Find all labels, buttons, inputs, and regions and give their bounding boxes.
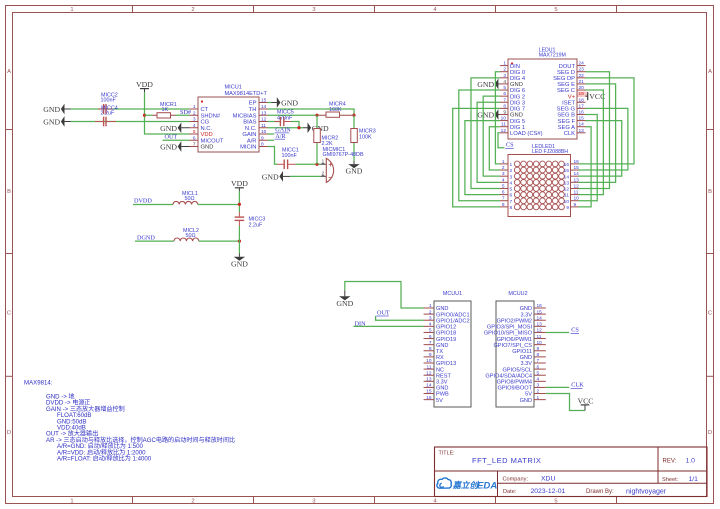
svg-text:12: 12	[564, 187, 570, 193]
svg-text:470nF: 470nF	[277, 115, 293, 121]
notes text MAX9814 description	[24, 380, 235, 463]
wire 5V to VCC	[546, 394, 585, 411]
wire SEG DP to matrix pin 16	[579, 78, 635, 164]
svg-text:DIG 0: DIG 0	[510, 70, 525, 76]
net label OUT (MCU)	[376, 310, 390, 317]
svg-text:MICIN: MICIN	[240, 145, 256, 151]
svg-text:RX: RX	[436, 355, 444, 361]
resistor MICR1 1K	[153, 113, 176, 118]
svg-text:18: 18	[579, 97, 585, 103]
svg-text:2: 2	[193, 110, 196, 116]
svg-text:16: 16	[564, 162, 570, 168]
svg-text:9: 9	[537, 346, 540, 352]
chip LEDU1 MAX7219M body	[508, 59, 577, 139]
svg-text:5: 5	[193, 129, 196, 135]
svg-text:GND: GND	[436, 343, 448, 349]
svg-text:CS: CS	[571, 327, 579, 334]
svg-text:GND: GND	[160, 124, 177, 133]
power flag VCC (MCU)	[577, 396, 593, 410]
svg-text:FFT_LED MATRIX: FFT_LED MATRIX	[472, 456, 541, 465]
svg-text:GPIO4/SDA/ADC4: GPIO4/SDA/ADC4	[485, 373, 532, 379]
net label GAIN	[275, 127, 292, 134]
inductor MICL2 50R	[174, 238, 199, 241]
svg-text:GND: GND	[477, 80, 494, 89]
svg-text:5V: 5V	[436, 398, 443, 404]
wire A/R net	[268, 139, 275, 141]
junction N.C./BIAS	[297, 126, 300, 129]
svg-text:PWB: PWB	[436, 392, 449, 398]
svg-text:6: 6	[429, 334, 432, 340]
svg-text:GND: GND	[346, 167, 363, 176]
wire MICR1 to SHDN#	[176, 114, 190, 116]
svg-text:VDD: VDD	[231, 179, 248, 188]
svg-text:11: 11	[574, 190, 579, 196]
wire SEG D to matrix pin 12	[579, 72, 610, 189]
net label A/R	[275, 133, 287, 140]
MICU1 right pins 8-15	[233, 98, 268, 151]
svg-text:SEG B: SEG B	[557, 113, 575, 119]
svg-text:5: 5	[537, 370, 540, 376]
MCUU2 reference label	[508, 291, 527, 297]
svg-text:16: 16	[574, 159, 580, 165]
svg-text:2: 2	[322, 171, 325, 176]
svg-text:GND: GND	[201, 145, 214, 151]
svg-text:SEG D: SEG D	[557, 70, 575, 76]
svg-text:23: 23	[579, 67, 585, 73]
svg-text:14: 14	[564, 174, 570, 180]
wire BIAS to NC junction	[291, 122, 299, 128]
ground flag GND (N.C. pin4)	[160, 122, 189, 133]
LEDLED1 reference label	[532, 144, 555, 150]
svg-text:20: 20	[579, 85, 585, 91]
MICC1 labels	[282, 148, 299, 159]
LEDLED1 dot grid	[514, 161, 564, 210]
svg-text:GND: GND	[281, 99, 298, 108]
svg-text:SEG E: SEG E	[557, 82, 575, 88]
svg-text:DOUT: DOUT	[559, 64, 576, 70]
svg-text:GPIO2/PWM2: GPIO2/PWM2	[497, 318, 532, 324]
svg-text:100nF: 100nF	[282, 153, 298, 159]
svg-text:3.3V: 3.3V	[520, 361, 532, 367]
ground flag GND (filter)	[231, 254, 248, 269]
svg-text:4: 4	[193, 123, 196, 129]
wire SEG E to matrix pin 13	[579, 84, 616, 182]
svg-text:10: 10	[426, 358, 432, 364]
svg-text:GND: GND	[43, 105, 60, 114]
svg-text:11: 11	[261, 123, 266, 129]
svg-text:2023-12-01: 2023-12-01	[531, 488, 566, 495]
svg-text:GPIO7/SPI_CS: GPIO7/SPI_CS	[493, 343, 532, 349]
capacitor MICC5	[268, 117, 292, 126]
svg-text:MAX9814:: MAX9814:	[24, 380, 53, 387]
wire DIG 7 to matrix pin 8	[453, 108, 500, 207]
ground flag GND (LEDU1 pin9)	[477, 109, 500, 120]
svg-text:NC: NC	[436, 367, 444, 373]
svg-text:REST: REST	[436, 373, 452, 379]
svg-text:160K: 160K	[329, 107, 342, 113]
svg-text:10: 10	[564, 199, 570, 205]
svg-text:BIAS: BIAS	[243, 120, 256, 126]
junction VDD/MICC3 top	[238, 203, 241, 206]
MICR4 labels	[329, 101, 346, 113]
svg-text:7: 7	[537, 358, 540, 364]
svg-text:SEG F: SEG F	[558, 119, 576, 125]
svg-text:3: 3	[312, 499, 315, 505]
svg-text:MAX9814ETD+T: MAX9814ETD+T	[225, 91, 268, 97]
svg-text:TITLE:: TITLE:	[439, 451, 455, 457]
resistor MICR3 100K	[351, 115, 358, 161]
svg-text:16: 16	[579, 109, 585, 115]
svg-text:1: 1	[510, 162, 513, 168]
svg-text:1: 1	[70, 499, 73, 505]
svg-text:VCC: VCC	[577, 396, 593, 405]
LEDU1 right pins 13-24	[553, 61, 587, 137]
svg-text:MCUU2: MCUU2	[508, 291, 527, 297]
ground flag GND (CT input)	[43, 104, 70, 115]
svg-text:Company:: Company:	[503, 477, 529, 483]
LEDLED1 right pins 9-16	[564, 159, 580, 211]
svg-text:GPIO9/BOOT: GPIO9/BOOT	[497, 386, 532, 392]
svg-text:24: 24	[579, 61, 585, 67]
svg-text:GPIO13: GPIO13	[436, 361, 456, 367]
svg-text:2: 2	[537, 389, 540, 395]
svg-text:GPIO10/SPI_MISO: GPIO10/SPI_MISO	[484, 331, 533, 337]
svg-text:Date:: Date:	[503, 489, 517, 495]
svg-text:1: 1	[70, 7, 73, 13]
svg-text:5: 5	[503, 85, 506, 91]
svg-text:7: 7	[510, 199, 513, 205]
svg-text:DIG 2: DIG 2	[510, 94, 525, 100]
svg-text:14: 14	[261, 104, 267, 110]
svg-text:EP: EP	[249, 101, 257, 107]
MCUU1 reference label	[443, 291, 462, 297]
svg-text:C: C	[7, 311, 11, 317]
svg-text:50Ω: 50Ω	[185, 196, 195, 202]
wire GPIO10 to CS	[546, 331, 569, 333]
svg-text:7: 7	[502, 196, 505, 202]
svg-text:3: 3	[537, 383, 540, 389]
svg-text:DIG 7: DIG 7	[510, 107, 525, 113]
title block Sheet	[662, 476, 698, 483]
title block TITLE label	[439, 451, 455, 457]
svg-text:ISET: ISET	[562, 100, 575, 106]
svg-text:D: D	[708, 430, 712, 436]
svg-text:9: 9	[261, 135, 264, 141]
svg-text:1K: 1K	[162, 107, 169, 113]
LED matrix LEDLED1 body	[508, 155, 571, 217]
LEDU1 left pins 1-12	[500, 61, 543, 137]
net label DGND	[137, 234, 155, 241]
svg-text:GPIO6/PWM1: GPIO6/PWM1	[497, 337, 532, 343]
svg-text:DIG 3: DIG 3	[510, 100, 525, 106]
svg-text:10: 10	[501, 116, 507, 122]
svg-text:3: 3	[510, 174, 513, 180]
svg-text:7: 7	[503, 97, 506, 103]
svg-text:VDD: VDD	[201, 132, 213, 138]
svg-text:GPIO19: GPIO19	[436, 337, 456, 343]
MCUU1 pins 1-16	[424, 303, 470, 404]
resistor MICR2 2.2K	[314, 115, 321, 164]
wire SEG G to matrix pin 15	[579, 108, 628, 170]
svg-text:8: 8	[502, 202, 505, 208]
svg-text:8: 8	[261, 142, 264, 148]
svg-text:GMI9767P-48DB: GMI9767P-48DB	[323, 152, 364, 158]
wire SEG A to matrix pin 9	[579, 127, 592, 207]
svg-text:XDU: XDU	[541, 476, 555, 483]
svg-text:14: 14	[579, 122, 585, 128]
svg-text:5: 5	[429, 328, 432, 334]
svg-text:MICOUT: MICOUT	[201, 138, 224, 144]
wire DIG 0 to matrix pin 1	[495, 72, 500, 164]
svg-text:GPIO5/SCL: GPIO5/SCL	[502, 367, 532, 373]
svg-text:GND: GND	[520, 355, 532, 361]
wire DIN to GPIO12	[354, 325, 424, 327]
wire N.C. net	[268, 127, 304, 129]
svg-text:12: 12	[501, 128, 507, 134]
svg-text:3: 3	[503, 73, 506, 79]
svg-text:OUT: OUT	[377, 310, 390, 317]
svg-text:OUT: OUT	[165, 133, 178, 140]
LEDU1 reference label	[539, 47, 556, 53]
title block Date row	[503, 488, 667, 495]
svg-text:2.2uF: 2.2uF	[101, 111, 115, 117]
LEDLED1 value label	[532, 149, 568, 155]
svg-text:3: 3	[193, 117, 196, 123]
junction DGND/MICC3 bottom	[238, 240, 241, 243]
wire MICL2 to junction	[199, 240, 240, 242]
svg-text:GND: GND	[336, 299, 353, 308]
svg-text:9: 9	[429, 352, 432, 358]
svg-text:嘉立创: 嘉立创	[452, 480, 480, 490]
wire DIG 2 to matrix pin 3	[483, 96, 500, 176]
wire DIG 5 to matrix pin 6	[465, 121, 500, 195]
svg-text:15: 15	[537, 309, 543, 315]
svg-text:DVDD: DVDD	[134, 198, 152, 205]
svg-text:SEG DP: SEG DP	[553, 76, 575, 82]
MICU1 left pins 1-7	[190, 104, 224, 151]
svg-text:8: 8	[510, 205, 513, 211]
wire MICC1 to mic	[296, 163, 321, 165]
svg-text:15: 15	[426, 389, 432, 395]
svg-text:3.3V: 3.3V	[436, 380, 448, 386]
svg-text:17: 17	[579, 103, 585, 109]
svg-text:2.2uF: 2.2uF	[249, 222, 263, 228]
svg-text:4: 4	[510, 180, 513, 186]
svg-text:3: 3	[502, 171, 505, 177]
title block REV	[663, 458, 696, 465]
svg-text:10: 10	[574, 196, 580, 202]
svg-text:9: 9	[503, 109, 506, 115]
svg-text:A/R: A/R	[247, 138, 257, 144]
svg-text:C: C	[708, 311, 712, 317]
wire VDD to MICR1	[145, 114, 153, 116]
svg-text:EDA: EDA	[477, 480, 497, 491]
LEDLED1 left pins 1-8	[500, 159, 513, 211]
svg-text:A: A	[7, 69, 11, 75]
svg-text:15: 15	[564, 168, 570, 174]
svg-text:50Ω: 50Ω	[186, 233, 196, 239]
net label CLK (MCU)	[571, 382, 585, 389]
capacitor MICC3	[235, 212, 245, 226]
svg-text:16: 16	[426, 395, 432, 401]
connector MCUU2 body	[496, 301, 534, 407]
logo JLC EDA	[437, 478, 497, 491]
MICR2 labels	[322, 136, 339, 148]
net label DVDD	[134, 198, 152, 205]
svg-text:13: 13	[564, 180, 570, 186]
MICC4 labels	[101, 105, 118, 116]
svg-text:12: 12	[537, 328, 543, 334]
svg-text:N.C.: N.C.	[245, 126, 257, 132]
svg-text:GND: GND	[43, 118, 60, 127]
svg-text:GND: GND	[160, 143, 177, 152]
capacitor MICC1	[277, 160, 296, 170]
svg-text:A: A	[708, 69, 712, 75]
svg-text:100nF: 100nF	[101, 98, 117, 104]
svg-text:GND: GND	[520, 398, 532, 404]
svg-text:DGND: DGND	[137, 234, 155, 241]
MICMIC1 labels	[323, 147, 364, 158]
svg-text:14: 14	[537, 315, 543, 321]
svg-text:2: 2	[510, 168, 513, 174]
svg-text:1: 1	[193, 104, 196, 110]
svg-text:GND: GND	[510, 113, 523, 119]
title block Company	[503, 476, 556, 483]
svg-text:7: 7	[429, 340, 432, 346]
svg-text:1.0: 1.0	[686, 458, 696, 465]
svg-text:11: 11	[427, 364, 432, 370]
svg-text:16: 16	[537, 303, 543, 309]
svg-text:11: 11	[564, 193, 569, 199]
svg-text:D: D	[7, 430, 11, 436]
wire MCUU1 pin1 to GND	[345, 282, 424, 309]
svg-text:5: 5	[510, 187, 513, 193]
svg-text:DIG 1: DIG 1	[510, 125, 525, 131]
power flag VCC (V+)	[586, 92, 606, 101]
svg-text:2: 2	[191, 7, 194, 13]
svg-text:MICBIAS: MICBIAS	[233, 113, 257, 119]
svg-text:9: 9	[566, 205, 569, 211]
wire MICL1 to junction	[198, 204, 240, 206]
svg-text:GPIO11: GPIO11	[512, 349, 532, 355]
MCUU2 pins 1-16	[484, 303, 546, 404]
ground flag GND (MCUU1)	[336, 290, 353, 308]
svg-text:CLK: CLK	[564, 131, 575, 137]
svg-text:GPIO0/ADC1: GPIO0/ADC1	[436, 312, 470, 318]
svg-text:CG: CG	[201, 120, 210, 126]
svg-text:14: 14	[574, 171, 580, 177]
svg-text:1: 1	[537, 395, 540, 401]
svg-text:12: 12	[426, 370, 432, 376]
MICU1 reference label	[225, 85, 242, 91]
svg-text:DIG 4: DIG 4	[510, 76, 526, 82]
svg-text:B: B	[7, 189, 11, 195]
wire DGND net	[135, 240, 174, 242]
ground flag GND (N.C./BIAS)	[303, 122, 329, 133]
MICR1 labels	[160, 102, 177, 113]
svg-text:6: 6	[537, 364, 540, 370]
svg-text:10: 10	[537, 340, 543, 346]
svg-text:MAX7219M: MAX7219M	[539, 53, 566, 59]
svg-text:1: 1	[429, 303, 432, 309]
svg-text:6: 6	[193, 135, 196, 141]
svg-text:REV:: REV:	[663, 459, 677, 465]
svg-text:V+: V+	[568, 94, 576, 100]
svg-text:+: +	[328, 160, 333, 169]
svg-text:GND: GND	[520, 306, 532, 312]
op-amp U MICU1 MAX9814 body	[198, 97, 259, 152]
svg-text:A/R: A/R	[275, 133, 286, 140]
svg-text:CS: CS	[506, 142, 514, 149]
svg-text:N.C.: N.C.	[201, 126, 213, 132]
capacitor MICC2	[98, 104, 113, 114]
svg-text:3.3V: 3.3V	[520, 312, 532, 318]
svg-text:TH: TH	[249, 107, 257, 113]
svg-text:19: 19	[579, 91, 585, 97]
wire DIG 6 to matrix pin 7	[459, 90, 500, 201]
wire MICBIAS net	[268, 114, 318, 116]
title block grid	[435, 447, 708, 497]
wire CT net	[71, 108, 190, 110]
svg-text:SEG C: SEG C	[557, 88, 575, 94]
svg-text:GPIO8/PWM4: GPIO8/PWM4	[497, 380, 532, 386]
wire SEG B to matrix pin 10	[579, 114, 598, 200]
svg-text:15: 15	[261, 98, 267, 104]
svg-text:14: 14	[426, 383, 432, 389]
svg-text:GAIN: GAIN	[242, 132, 256, 138]
wire MICC3 to GND	[238, 226, 240, 254]
LEDU1 value label	[539, 53, 566, 59]
svg-text:1: 1	[322, 159, 325, 164]
svg-text:GPIO3/SPI_MOSI: GPIO3/SPI_MOSI	[487, 325, 533, 331]
MICC2 labels	[101, 92, 118, 103]
svg-text:3: 3	[429, 315, 432, 321]
svg-text:2: 2	[429, 309, 432, 315]
svg-text:1/1: 1/1	[689, 476, 699, 483]
svg-text:SD#: SD#	[180, 109, 191, 116]
svg-text:13: 13	[426, 377, 432, 383]
svg-text:5: 5	[502, 183, 505, 189]
svg-text:DIG 5: DIG 5	[510, 119, 525, 125]
svg-text:Drawn By:: Drawn By:	[586, 489, 614, 495]
resistor MICR4 160K	[317, 112, 354, 117]
ground flag GND (CG input)	[43, 116, 70, 127]
connector MCUU1 body	[434, 301, 471, 407]
svg-text:100K: 100K	[359, 134, 372, 140]
wire VDD to cap rail	[238, 191, 240, 212]
svg-text:21: 21	[579, 79, 585, 85]
wire GPIO9 to CLK	[546, 386, 569, 388]
svg-text:8: 8	[503, 103, 506, 109]
ground flag GND (below MICR3)	[346, 161, 363, 176]
net label DIN (MCU)	[355, 320, 367, 327]
ground flag GND (mic minus)	[262, 171, 290, 182]
svg-text:B: B	[708, 189, 712, 195]
svg-text:SEG A: SEG A	[558, 125, 576, 131]
svg-text:4: 4	[502, 177, 505, 183]
net label OUT (MICOUT)	[165, 133, 178, 140]
svg-text:GND: GND	[436, 386, 448, 392]
wire DIG 1 to matrix pin 2	[489, 127, 500, 170]
svg-text:13: 13	[261, 110, 267, 116]
svg-text:nightvoyager: nightvoyager	[626, 489, 667, 496]
MICR3 labels	[359, 129, 376, 141]
wire MICIN net	[268, 147, 278, 165]
svg-text:A/R=FLOAT: 启动/释放比为 1:4000: A/R=FLOAT: 启动/释放比为 1:4000	[57, 455, 152, 463]
wire OUT to GPIO1	[376, 316, 424, 320]
wire DVDD net	[133, 204, 173, 206]
svg-text:6: 6	[502, 190, 505, 196]
